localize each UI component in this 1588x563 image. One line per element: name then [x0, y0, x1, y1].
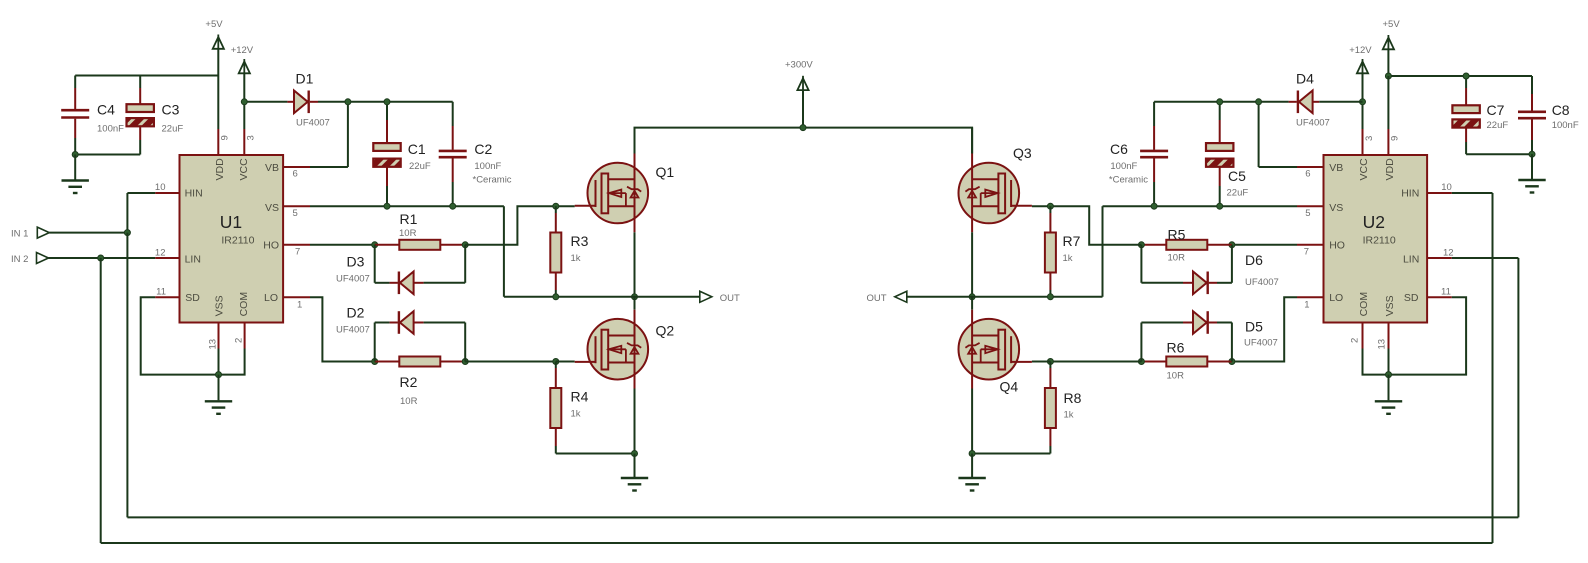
label C1 — [408, 141, 426, 157]
wire Q1 drain feed — [634, 128, 636, 154]
capacitor C7 — [1452, 105, 1479, 127]
wire IN2 to LIN — [49, 257, 156, 259]
svg-text:C3: C3 — [162, 102, 180, 118]
wire U1 COM lead — [219, 349, 245, 375]
power +12V left — [239, 59, 250, 102]
U2 pin COM stub — [1362, 323, 1364, 349]
label C6 value — [1110, 161, 1137, 172]
capacitor C4 — [61, 110, 89, 117]
svg-text:22uF: 22uF — [409, 161, 431, 172]
svg-text:C7: C7 — [1487, 102, 1505, 118]
label R1 — [400, 211, 418, 227]
svg-text:COM: COM — [1358, 292, 1370, 317]
svg-text:VCC: VCC — [1358, 158, 1370, 181]
label R8 — [1064, 390, 1082, 406]
U2 pin 13 label — [1377, 339, 1388, 350]
U1 name LO — [264, 292, 278, 304]
U1 pin VB stub — [283, 166, 310, 168]
svg-text:*Ceramic: *Ceramic — [1109, 175, 1148, 186]
svg-text:C6: C6 — [1110, 141, 1128, 157]
wire gate3 line — [1050, 206, 1141, 245]
op-amp U2 body — [1324, 155, 1428, 323]
svg-text:2: 2 — [234, 338, 245, 343]
label C4 — [97, 102, 115, 118]
label R6 — [1167, 340, 1185, 356]
svg-text:+12V: +12V — [1349, 45, 1372, 56]
junction U2 VSS — [1386, 372, 1392, 378]
svg-text:12: 12 — [155, 248, 166, 259]
svg-text:R7: R7 — [1063, 233, 1081, 249]
svg-text:HO: HO — [263, 240, 279, 252]
wire OUT rail right — [907, 296, 1103, 298]
terminal IN1 arrow — [37, 227, 49, 238]
wire bus1 IN1-LIN2 — [127, 516, 1518, 518]
diode D3 — [399, 272, 414, 295]
junction R3 bottom — [553, 294, 559, 300]
wire R8 bottom lead — [972, 428, 1050, 454]
label D1 value — [296, 118, 330, 129]
U1 value IR2110 — [221, 234, 254, 246]
junction +300V — [800, 125, 806, 131]
junction Q2 source — [632, 451, 638, 457]
svg-text:Q3: Q3 — [1013, 145, 1032, 161]
U2 name VDD — [1384, 158, 1396, 181]
resistor R6 — [1166, 357, 1207, 367]
U1 pin HIN stub — [155, 192, 179, 194]
node IN1/HIN vertical — [127, 193, 155, 233]
svg-text:U1: U1 — [220, 212, 242, 232]
svg-text:9: 9 — [1390, 136, 1401, 141]
svg-text:+5V: +5V — [205, 19, 223, 30]
wire C5 bottom lead — [1219, 167, 1221, 206]
wire OUT rail left — [504, 296, 700, 298]
svg-text:100nF: 100nF — [1110, 161, 1137, 172]
junction Q4 source — [969, 451, 975, 457]
capacitor C1 — [373, 143, 400, 167]
svg-text:UF4007: UF4007 — [1245, 277, 1279, 288]
wire D4 cathode rail — [1154, 101, 1297, 103]
U2 pin VB stub — [1297, 166, 1324, 168]
svg-text:VCC: VCC — [238, 158, 250, 181]
U1 pin 11 label — [156, 286, 166, 297]
wire R1 left lead — [375, 244, 400, 246]
label D3 value — [336, 274, 370, 285]
power +5V right — [1383, 35, 1394, 76]
terminal IN2 arrow — [37, 253, 49, 264]
wire +5V top rail right — [1388, 75, 1532, 77]
svg-text:10R: 10R — [399, 228, 417, 239]
U2 pin SD stub — [1427, 296, 1452, 298]
wire C2 bottom lead — [452, 157, 454, 206]
svg-text:22uF: 22uF — [1487, 120, 1509, 131]
power +5V left — [213, 35, 224, 76]
U1 pin 9 label — [220, 135, 231, 140]
svg-text:VS: VS — [1329, 202, 1343, 214]
U2 name LIN — [1403, 253, 1419, 265]
label R5 — [1168, 227, 1186, 243]
svg-text:12: 12 — [1443, 248, 1454, 259]
svg-text:1: 1 — [297, 300, 302, 311]
label IN 1 — [11, 229, 28, 240]
label C6 note — [1109, 175, 1148, 186]
svg-text:1k: 1k — [1063, 253, 1073, 264]
label C4 value — [97, 124, 124, 135]
wire R2 right lead — [440, 361, 465, 363]
svg-text:SD: SD — [1404, 292, 1419, 304]
svg-text:UF4007: UF4007 — [1296, 118, 1330, 129]
svg-text:VB: VB — [1329, 162, 1343, 174]
ground U1 — [205, 375, 232, 414]
U1 pin SD stub — [155, 296, 179, 298]
svg-text:HO: HO — [1329, 240, 1345, 252]
wire C1 bottom lead — [386, 167, 388, 206]
junction R5 left — [1138, 242, 1144, 248]
wire IN2 down to bus2 — [100, 258, 102, 543]
U2 name COM — [1358, 292, 1370, 317]
svg-text:10R: 10R — [1167, 371, 1185, 382]
svg-text:10R: 10R — [400, 396, 418, 407]
U1 pin VDD stub — [217, 129, 219, 155]
label Q1 — [656, 164, 675, 180]
junction C7 top — [1463, 73, 1469, 79]
diode D1 — [294, 91, 309, 114]
wire VB2 drop to U2 — [1259, 102, 1324, 167]
svg-text:LIN: LIN — [185, 253, 201, 265]
U2 pin VCC stub — [1362, 129, 1364, 155]
power +300V — [797, 76, 808, 128]
label +5V left — [205, 19, 223, 30]
svg-text:VB: VB — [265, 162, 279, 174]
wire C6 top lead — [1153, 102, 1155, 150]
wire C4 top lead — [74, 76, 76, 110]
label R6 value — [1167, 371, 1185, 382]
junction R2 left — [372, 359, 378, 365]
label OUT right — [867, 293, 887, 304]
wire HO2 to R5 — [1232, 244, 1297, 246]
svg-text:R1: R1 — [400, 211, 418, 227]
svg-text:R4: R4 — [571, 389, 589, 405]
ground U2 — [1375, 375, 1402, 414]
svg-text:1: 1 — [1304, 300, 1309, 311]
svg-text:9: 9 — [220, 135, 231, 140]
U1 name VCC — [238, 158, 250, 181]
U2 name VSS — [1384, 295, 1396, 316]
svg-text:R8: R8 — [1064, 390, 1082, 406]
wire D5 left leg — [1141, 323, 1192, 362]
capacitor C5 — [1206, 143, 1233, 167]
svg-text:22uF: 22uF — [162, 124, 184, 135]
wire U2 VCC feed — [1362, 102, 1364, 129]
svg-text:IR2110: IR2110 — [1363, 234, 1396, 246]
wire R3 bottom lead — [555, 273, 557, 297]
wire C3 bottom lead — [75, 125, 140, 154]
label D4 — [1296, 71, 1314, 87]
junction R7 bottom — [1047, 294, 1053, 300]
U1 pin 13 label — [208, 339, 219, 350]
U1 pin HO stub — [283, 244, 310, 246]
svg-text:LO: LO — [1329, 292, 1343, 304]
resistor R3 — [550, 233, 561, 273]
svg-text:10R: 10R — [1168, 253, 1186, 264]
U2 value IR2110 — [1363, 234, 1396, 246]
svg-text:IR2110: IR2110 — [221, 234, 254, 246]
wire gate1 to Q1 — [556, 205, 575, 207]
label D2 — [347, 305, 365, 321]
U2 pin HIN stub — [1427, 192, 1452, 194]
resistor R8 — [1045, 388, 1056, 428]
junction VB drop — [345, 99, 351, 105]
capacitor C3 — [127, 104, 154, 126]
wire IN1 to HIN net — [49, 232, 127, 234]
U1 pin 12 label — [155, 248, 166, 259]
op-amp U1 body — [180, 155, 284, 323]
label R4 value — [571, 409, 581, 420]
label C6 — [1110, 141, 1128, 157]
transistor Q4 — [959, 310, 1032, 389]
wire U1 SD loop — [141, 297, 219, 374]
wire C8 top lead — [1531, 76, 1533, 112]
label R5 value — [1168, 253, 1186, 264]
U2 pin 7 label — [1304, 247, 1309, 258]
svg-text:IN 2: IN 2 — [11, 254, 28, 265]
svg-text:OUT: OUT — [720, 293, 740, 304]
label D4 value — [1296, 118, 1330, 129]
wire R1 right lead — [440, 244, 465, 246]
wire gate4 to Q4 — [1032, 361, 1051, 363]
wire C8 bottom lead — [1531, 118, 1533, 154]
svg-text:Q1: Q1 — [656, 164, 675, 180]
svg-text:100nF: 100nF — [97, 124, 124, 135]
transistor Q1 — [575, 154, 648, 233]
svg-text:OUT: OUT — [867, 293, 887, 304]
label D5 — [1245, 319, 1263, 335]
label R2 value — [400, 396, 418, 407]
junction C1 top — [384, 99, 390, 105]
U2 name SD — [1404, 292, 1419, 304]
label Q2 — [656, 323, 675, 339]
wire bus2 IN2-HIN2 — [101, 542, 1493, 544]
wire R5 left lead — [1141, 244, 1166, 246]
junction C4 ground — [72, 152, 78, 158]
label Q3 — [1013, 145, 1032, 161]
label C1 value — [409, 161, 431, 172]
junction IN1 — [124, 230, 130, 236]
U2 pin 6 label — [1305, 169, 1310, 180]
wire gate4 line — [1050, 361, 1141, 363]
svg-text:100nF: 100nF — [1552, 120, 1579, 131]
wire U1 VDD feed — [217, 76, 219, 130]
junction R8 top — [1047, 359, 1053, 365]
junction C8 ground — [1529, 151, 1535, 157]
svg-text:R5: R5 — [1168, 227, 1186, 243]
svg-text:C8: C8 — [1552, 102, 1570, 118]
wire VB drop to U1 — [283, 102, 348, 167]
wire D2 left leg — [375, 323, 398, 362]
resistor R1 — [399, 240, 440, 250]
wire Q4 source — [971, 389, 973, 454]
wire R4 top lead — [555, 362, 557, 389]
terminal OUT right — [895, 291, 907, 302]
svg-text:1k: 1k — [1064, 410, 1074, 421]
wire U1 VCC feed — [243, 102, 245, 129]
label Q4 — [1000, 379, 1019, 395]
U1 name VS — [265, 202, 279, 214]
diode D6 — [1193, 272, 1208, 295]
U1 name LIN — [185, 253, 201, 265]
wire U2 SD loop — [1389, 297, 1467, 374]
svg-text:D5: D5 — [1245, 319, 1263, 335]
U1 name HO — [263, 240, 279, 252]
label D6 value — [1245, 277, 1279, 288]
svg-text:LO: LO — [264, 292, 278, 304]
svg-text:100nF: 100nF — [474, 161, 501, 172]
label +12V right — [1349, 45, 1372, 56]
junction Q3 source — [969, 294, 975, 300]
wire U2 LIN to bus1 — [1452, 258, 1519, 517]
svg-text:D6: D6 — [1245, 252, 1263, 268]
svg-text:D2: D2 — [347, 305, 365, 321]
wire C4 bottom lead — [74, 119, 76, 155]
label C8 — [1552, 102, 1570, 118]
svg-text:UF4007: UF4007 — [336, 325, 370, 336]
wire D2 right leg — [415, 323, 466, 362]
U2 name HIN — [1401, 188, 1419, 200]
U1 name SD — [185, 292, 200, 304]
diode D2 — [399, 311, 414, 334]
label C8 value — [1552, 120, 1579, 131]
wire R7 top lead — [1049, 206, 1051, 232]
label R4 — [571, 389, 589, 405]
junction C6 bottom — [1151, 203, 1157, 209]
wire R6 right lead — [1207, 361, 1232, 363]
svg-text:U2: U2 — [1363, 212, 1385, 232]
svg-text:+300V: +300V — [785, 60, 813, 71]
svg-text:22uF: 22uF — [1227, 188, 1249, 199]
wire VS2 drop to OUT — [1102, 206, 1104, 297]
U2 designator — [1363, 212, 1385, 232]
junction R7 top — [1047, 203, 1053, 209]
svg-text:13: 13 — [208, 339, 219, 350]
U2 pin 9 label — [1390, 136, 1401, 141]
wire U2 VSS lead — [1388, 349, 1390, 375]
svg-text:1k: 1k — [571, 253, 581, 264]
junction C2 bottom — [450, 203, 456, 209]
label C5 — [1228, 168, 1246, 184]
svg-text:3: 3 — [1364, 136, 1375, 141]
junction U1 VSS — [216, 372, 222, 378]
ground Q4 — [958, 454, 985, 491]
junction +5V right — [1385, 73, 1391, 79]
U2 pin VSS stub — [1388, 323, 1390, 349]
U1 name HIN — [185, 188, 203, 200]
junction Q1 source — [632, 294, 638, 300]
label D3 — [347, 254, 365, 270]
label C2 note — [473, 175, 512, 186]
U2 pin 2 label — [1350, 338, 1361, 343]
label OUT left — [720, 293, 740, 304]
transistor Q2 — [575, 310, 648, 389]
svg-text:VDD: VDD — [1384, 158, 1396, 181]
U1 pin LIN stub — [155, 257, 179, 259]
ground Q2 — [621, 454, 648, 491]
label C7 — [1487, 102, 1505, 118]
svg-text:Q2: Q2 — [656, 323, 675, 339]
label C3 value — [162, 124, 184, 135]
U2 pin 3 label — [1364, 136, 1375, 141]
svg-text:R3: R3 — [571, 233, 589, 249]
label C5 value — [1227, 188, 1249, 199]
svg-text:VS: VS — [265, 202, 279, 214]
junction R2 right — [462, 359, 468, 365]
U1 name VSS — [213, 295, 225, 316]
U1 name VDD — [214, 158, 226, 181]
wire U2 VDD feed — [1387, 76, 1389, 129]
svg-text:R6: R6 — [1167, 340, 1185, 356]
svg-text:3: 3 — [246, 135, 257, 140]
wire gate2 to Q2 — [556, 361, 575, 363]
junction VB2 drop — [1256, 99, 1262, 105]
U1 pin VS stub — [283, 205, 310, 207]
U2 pin HO stub — [1297, 244, 1324, 246]
wire C3 top lead — [139, 76, 141, 105]
label R8 value — [1064, 410, 1074, 421]
U1 pin LO stub — [283, 296, 310, 298]
svg-text:COM: COM — [238, 292, 250, 317]
svg-text:UF4007: UF4007 — [1244, 338, 1278, 349]
U1 pin 2 label — [234, 338, 245, 343]
wire U1 VSS lead — [218, 349, 220, 375]
svg-text:D1: D1 — [296, 71, 314, 87]
svg-text:HIN: HIN — [1401, 188, 1419, 200]
svg-text:5: 5 — [1305, 208, 1310, 219]
wire D1 anode — [244, 101, 295, 103]
label D5 value — [1244, 338, 1278, 349]
U1 designator — [220, 212, 242, 232]
label R1 value — [399, 228, 417, 239]
label +12V left — [231, 45, 254, 56]
U2 pin LO stub — [1297, 296, 1324, 298]
capacitor C2 — [439, 151, 467, 157]
U1 pin 7 label — [295, 247, 300, 258]
svg-text:*Ceramic: *Ceramic — [473, 175, 512, 186]
U2 pin 12 label — [1443, 248, 1454, 259]
terminal OUT left — [700, 291, 712, 302]
svg-text:6: 6 — [1305, 169, 1310, 180]
wire LO2 loop — [1232, 297, 1297, 361]
capacitor C6 — [1140, 151, 1168, 157]
wire R5 right lead — [1207, 244, 1232, 246]
wire C6 bottom lead — [1153, 157, 1155, 206]
resistor R7 — [1045, 233, 1056, 273]
svg-text:7: 7 — [295, 247, 300, 258]
wire IN1 down to bus1 — [126, 233, 128, 518]
U1 pin VCC stub — [243, 129, 245, 155]
junction R6 left — [1138, 359, 1144, 365]
capacitor C8 — [1518, 112, 1546, 118]
label D2 value — [336, 325, 370, 336]
junction R1 right — [462, 242, 468, 248]
label R7 — [1063, 233, 1081, 249]
svg-text:+12V: +12V — [231, 45, 254, 56]
svg-text:SD: SD — [185, 292, 200, 304]
wire Q1 source — [634, 232, 636, 296]
svg-text:D3: D3 — [347, 254, 365, 270]
svg-text:HIN: HIN — [185, 188, 203, 200]
wire D4 anode — [1311, 101, 1362, 103]
label C2 — [474, 141, 492, 157]
svg-text:10: 10 — [155, 182, 166, 193]
junction R4 top — [553, 359, 559, 365]
